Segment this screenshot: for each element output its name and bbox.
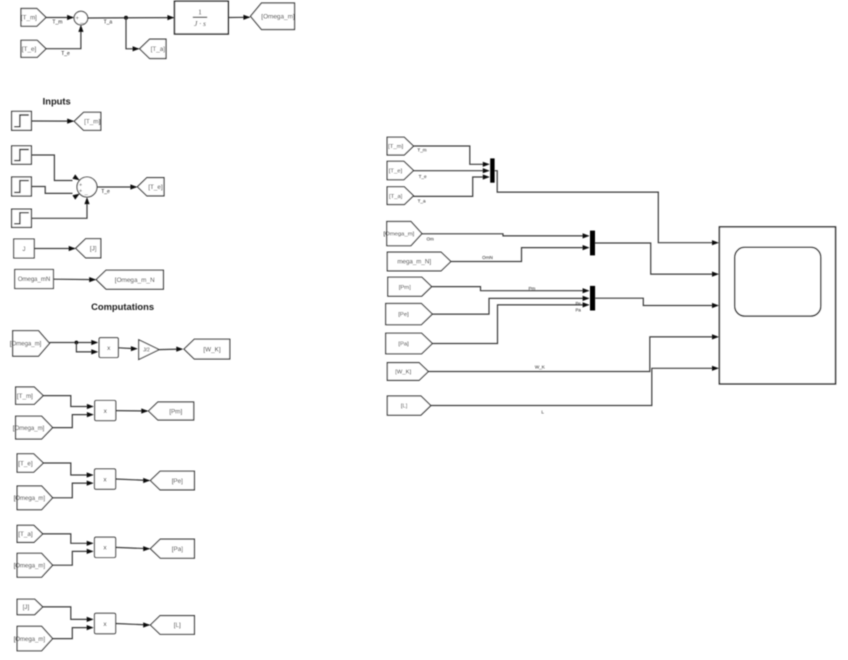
svg-text:[Omega_m]: [Omega_m] [261, 14, 295, 21]
from block Omega_m (W_K row) [10, 331, 50, 356]
svg-text:[Omega_m]: [Omega_m] [13, 426, 45, 432]
goto block J (inputs) [76, 239, 101, 258]
wire T_e to mux1 [414, 168, 490, 173]
svg-text:[T_e]: [T_e] [389, 169, 403, 175]
from block T_m (top) [21, 9, 46, 27]
signal label Om [426, 237, 434, 242]
from block T_e (top) [21, 40, 46, 57]
svg-text:[Pm]: [Pm] [399, 285, 411, 291]
wire mega_m_N to mux2 [451, 245, 590, 262]
wire transfer fcn to goto Omega_m [228, 15, 250, 20]
signal label T_e [61, 51, 70, 57]
wire W_K to scope in4 [428, 334, 719, 371]
svg-text:mega_m_N]: mega_m_N] [397, 259, 431, 266]
mux M3 (powers) [590, 286, 595, 311]
junction dot T_a [124, 16, 128, 20]
svg-text:[T_a]: [T_a] [18, 531, 33, 538]
svg-text:[L]: [L] [174, 622, 181, 629]
constant J [14, 239, 35, 258]
svg-text:W_K: W_K [535, 364, 546, 369]
svg-text:[W_K]: [W_K] [203, 346, 220, 353]
wire product to goto L [116, 622, 151, 627]
svg-text:[T_m]: [T_m] [84, 119, 100, 126]
goto block Omega_m_N (inputs) [96, 270, 163, 289]
mux M1 (torques) [490, 158, 494, 182]
signal label T_m (right) [417, 148, 426, 153]
svg-text:T_e: T_e [101, 189, 110, 195]
step source 1 [12, 111, 32, 130]
wire sum2 to goto T_e [97, 184, 137, 189]
svg-text:_: _ [79, 18, 84, 24]
wire product to goto Pm [116, 408, 149, 413]
wire Omega_mN to goto [53, 277, 96, 282]
wire T_m to mux1 [414, 146, 490, 167]
wire Omega_m to mux2 [422, 233, 590, 238]
from block J (row 5) [17, 599, 43, 614]
svg-text:[T_a]: [T_a] [151, 46, 166, 53]
product (row 3) [95, 469, 116, 489]
goto block Omega_m (top) [251, 3, 295, 30]
svg-text:T_e: T_e [419, 174, 427, 179]
wire T_e to product [43, 463, 93, 478]
svg-text:T_m: T_m [52, 20, 62, 26]
from block L (right) [387, 396, 431, 415]
wire product to goto Pa [116, 546, 151, 551]
signal label T_e (right) [419, 174, 427, 179]
signal label Pa [576, 307, 582, 312]
from block Omega_m (row 3) [14, 486, 53, 510]
svg-text:Computations: Computations [91, 301, 154, 312]
svg-text:T_m: T_m [417, 148, 426, 153]
svg-text:[T_m]: [T_m] [17, 393, 33, 400]
svg-text:T_a: T_a [418, 198, 426, 203]
heading Inputs [43, 95, 71, 106]
svg-text:[Omega_m]: [Omega_m] [14, 496, 46, 502]
wire Pm to mux3 [432, 287, 590, 294]
wire branch to goto T_a [126, 18, 140, 52]
wire product1 to gain [118, 346, 138, 351]
wire sum1 to transfer fcn [88, 15, 175, 20]
svg-text:[Omega_m]: [Omega_m] [10, 342, 42, 348]
wire step3 to sum2 [31, 187, 81, 200]
mux M2 (speeds) [590, 231, 595, 256]
goto block Pa (computations) [150, 539, 194, 558]
svg-text:+: + [79, 182, 82, 188]
wire mux3 to scope in3 [595, 298, 719, 308]
goto block W_K (computations) [184, 339, 230, 359]
junction dot Omega_m [75, 341, 79, 345]
from block W_K (right) [387, 363, 428, 381]
sum S2 [77, 177, 97, 197]
from block T_a (right) [387, 187, 413, 205]
signal label L [541, 410, 544, 415]
svg-text:[Pe]: [Pe] [172, 478, 183, 485]
svg-text:Om: Om [426, 237, 434, 242]
svg-text:J/2: J/2 [143, 348, 150, 354]
goto block Pe (computations) [150, 471, 194, 490]
svg-text:[W_K]: [W_K] [395, 370, 411, 376]
wire T_e to sum1 [46, 25, 84, 49]
wire T_a to mux1 [414, 174, 490, 196]
wire step2 to sum2 [31, 155, 81, 183]
from block T_m (row 2) [16, 387, 44, 404]
svg-text:J · s: J · s [194, 19, 206, 28]
product (row 5) [95, 613, 116, 633]
goto block T_e (inputs) [137, 178, 164, 196]
gain J/2 [139, 340, 159, 360]
scope [719, 227, 835, 384]
from block Pe (right) [386, 304, 433, 325]
svg-text:[J]: [J] [90, 246, 97, 253]
svg-text:[Pm]: [Pm] [169, 408, 182, 415]
wire Omega_m to product (row 2) [53, 412, 94, 428]
svg-text:[Pa]: [Pa] [398, 342, 409, 348]
wire T_a to product [43, 534, 94, 546]
step source 2 [12, 146, 32, 164]
svg-text:[T_e]: [T_e] [18, 460, 33, 467]
wire L to scope in5 [431, 366, 719, 406]
svg-text:[Omega_m_N: [Omega_m_N [115, 277, 155, 284]
goto block L (computations) [150, 616, 194, 635]
wire product to goto Pe [116, 478, 151, 483]
wire Omega_m to product (row 4) [53, 549, 94, 565]
heading Computations [91, 301, 154, 312]
from block T_a (row 4) [17, 525, 43, 542]
from block T_m (right) [387, 137, 413, 155]
product (row 4) [95, 537, 116, 557]
svg-text:[Omega_m]: [Omega_m] [14, 637, 46, 643]
wire T_m to sum1 [46, 15, 74, 20]
svg-text:Inputs: Inputs [43, 95, 71, 106]
wire Omega_m to product1 a [50, 340, 99, 345]
wire J to product [43, 607, 94, 622]
step source 3 [12, 177, 32, 196]
svg-text:[T_m]: [T_m] [388, 144, 403, 150]
wire Pa to mux3 [432, 302, 589, 343]
wire J to goto J [34, 246, 75, 251]
wire Omega_m to product (row 5) [53, 625, 94, 639]
signal label T_e (inputs) [101, 189, 110, 195]
signal label Pm [528, 286, 535, 291]
svg-text:[T_e]: [T_e] [22, 46, 37, 53]
wire step1 to goto T_m [31, 119, 74, 124]
wire Omega_m to product (row 3) [53, 481, 94, 498]
svg-text:+: + [76, 16, 80, 22]
product (row 2) [95, 401, 116, 421]
svg-text:[Pa]: [Pa] [172, 546, 183, 553]
sum S1 [74, 11, 88, 25]
transfer function 1/(J*s) [175, 1, 229, 34]
signal label T_a [104, 19, 113, 25]
svg-text:[Omega_m]: [Omega_m] [384, 232, 415, 238]
svg-text:1: 1 [198, 8, 202, 17]
from block Pm (right) [388, 277, 432, 296]
from block Omega_m (row 4) [14, 553, 53, 577]
wire mux2 to scope in2 [595, 243, 719, 277]
signal label T_m [52, 20, 62, 26]
wire Pe to mux3 [432, 296, 589, 314]
signal label W_K [535, 364, 546, 369]
step source 4 [12, 209, 32, 227]
wire Omega_m to product1 b [76, 343, 98, 355]
signal label OmN [482, 255, 493, 260]
svg-text:T_a: T_a [104, 19, 113, 25]
from block T_e (row 3) [17, 454, 43, 472]
svg-text:[Pe]: [Pe] [398, 312, 409, 318]
constant Omega_mN [15, 270, 54, 289]
svg-text:Omega_mN: Omega_mN [18, 277, 50, 283]
wire T_m to product [43, 396, 94, 410]
svg-text:Pa: Pa [576, 307, 582, 312]
svg-text:J: J [22, 246, 25, 253]
signal label Pe [576, 301, 582, 306]
svg-text:T_e: T_e [61, 51, 70, 57]
svg-text:[Omega_m]: [Omega_m] [14, 563, 46, 569]
from block Omega_m (row 2) [13, 416, 53, 439]
svg-text:OmN: OmN [482, 255, 493, 260]
goto block T_m (inputs) [74, 112, 101, 130]
svg-text:[T_a]: [T_a] [389, 194, 403, 200]
from block Omega_m (right) [384, 222, 422, 246]
svg-text:[J]: [J] [23, 604, 30, 611]
wire step4 to sum2 [31, 197, 89, 218]
svg-text:[L]: [L] [401, 404, 408, 410]
wire mux1 to scope in1 [495, 171, 719, 246]
goto block T_a (top) [140, 39, 166, 58]
from block Pa (right) [386, 333, 433, 354]
goto block Pm (computations) [149, 402, 194, 420]
signal label T_a (right) [418, 198, 426, 203]
svg-text:[T_e]: [T_e] [148, 184, 163, 191]
svg-text:L: L [541, 410, 544, 415]
from block mega_m_N (right) [387, 252, 451, 271]
product (W_K row) [99, 338, 118, 358]
svg-text:[T_m]: [T_m] [21, 15, 37, 22]
from block T_e (right) [387, 161, 413, 179]
from block Omega_m (row 5) [14, 626, 53, 650]
wire gain to goto W_K [159, 347, 183, 352]
